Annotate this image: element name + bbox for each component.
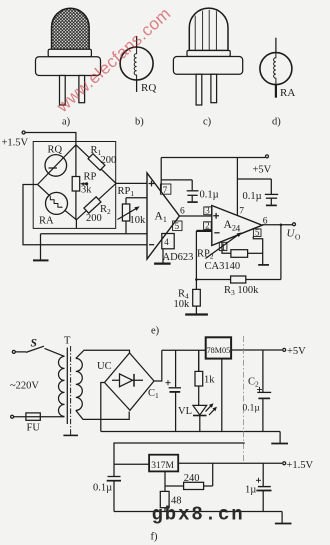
- bridge enclosure box: [33, 142, 116, 229]
- svg-text:f): f): [151, 532, 158, 543]
- svg-text:10k: 10k: [130, 215, 147, 226]
- svg-text:FU: FU: [27, 423, 41, 434]
- LED package c) dome: [189, 8, 228, 50]
- node AC terminal top: [12, 350, 15, 353]
- node AC terminal bottom: [11, 415, 14, 418]
- rectifier UC diamond: [105, 353, 155, 410]
- svg-text:+1.5V: +1.5V: [2, 138, 29, 149]
- photoresistor symbol b) element squiggle: [134, 48, 136, 79]
- resistor R3 100k: [196, 279, 281, 281]
- svg-text:e): e): [151, 326, 160, 337]
- ground below R4: [185, 313, 208, 315]
- pin box 5 of A2: [253, 229, 261, 237]
- wire A2 pin5 to ground: [253, 237, 262, 265]
- wire +5V out rail: [231, 349, 282, 351]
- photoresistor RA: [46, 192, 68, 214]
- op-amp A1 AD623: [147, 173, 179, 259]
- svg-text:RP2: RP2: [197, 249, 214, 261]
- svg-text:4: 4: [164, 237, 169, 247]
- node +1.5V terminal: [22, 131, 25, 134]
- wire A2 pin2 input (thick): [196, 230, 211, 232]
- svg-text:a): a): [62, 117, 71, 128]
- resistor R1 200: [88, 154, 105, 171]
- wire bridge diamond: [38, 145, 116, 220]
- ground at core: [63, 434, 78, 436]
- wire bridge plus riser: [154, 350, 162, 381]
- wire secondary bottom to bridge: [76, 410, 129, 419]
- wire +rail to 78M05: [162, 349, 206, 351]
- svg-text:c): c): [203, 117, 212, 128]
- package c) flange: [173, 57, 242, 75]
- capacitor 0.1u at 317M: [108, 476, 121, 478]
- svg-text:S: S: [31, 338, 37, 350]
- svg-text:RA: RA: [280, 87, 295, 99]
- svg-text:7: 7: [163, 185, 168, 195]
- capacitor C2: [262, 350, 264, 392]
- transformer T secondary winding: [76, 358, 83, 410]
- plus sign A2: [213, 213, 219, 219]
- resistor R4 10k: [193, 289, 201, 306]
- svg-text:0.1µ: 0.1µ: [93, 483, 112, 494]
- wire +1.5V to bridge top: [25, 133, 76, 145]
- svg-text:240: 240: [184, 473, 200, 484]
- wire bridge minus to ground rail: [101, 383, 105, 432]
- wire 0.1u branch A2: [237, 179, 271, 194]
- svg-text:1k: 1k: [204, 375, 215, 386]
- svg-text:1µ: 1µ: [245, 485, 256, 496]
- wire A1 pin4 to ground: [162, 234, 174, 249]
- pin box 1 of A2: [219, 242, 227, 250]
- wire A1 output to A2 input: [179, 215, 211, 217]
- transformer core: [66, 348, 68, 425]
- svg-text:C2: C2: [248, 377, 259, 389]
- ground at bottom rail: [281, 512, 283, 523]
- pin box 5 of A1: [173, 221, 182, 231]
- svg-text:5: 5: [255, 228, 260, 238]
- resistor R2 200: [84, 197, 101, 213]
- wire diamond bottom stub: [75, 220, 77, 229]
- diode inside UC: [112, 379, 143, 381]
- photoresistor symbol d) circle: [260, 53, 292, 85]
- svg-text:d): d): [272, 117, 281, 128]
- svg-text:317M: 317M: [151, 461, 174, 471]
- svg-text:0.1µ: 0.1µ: [243, 404, 261, 414]
- svg-text:RP: RP: [84, 172, 97, 183]
- wire ground rail upper f: [101, 431, 280, 433]
- svg-text:RQ: RQ: [141, 82, 156, 94]
- svg-text:7: 7: [239, 206, 244, 216]
- capacitor 0.1u at A2: [265, 193, 278, 195]
- svg-text:VL: VL: [178, 406, 192, 417]
- resistor 1k: [198, 350, 200, 371]
- package a) leg 2: [79, 76, 85, 103]
- node U0 terminal: [293, 223, 296, 226]
- svg-text:+5V: +5V: [253, 165, 272, 176]
- wire secondary top to bridge: [76, 350, 130, 358]
- svg-text:3: 3: [205, 206, 210, 216]
- wire +5V rail: [161, 157, 265, 159]
- wire 317M adj pin: [164, 471, 166, 491]
- wire 317M input rail: [114, 443, 245, 476]
- minus sign A1: [149, 244, 154, 246]
- package c) collar: [187, 51, 230, 57]
- wire 317M input branch: [114, 463, 149, 465]
- photoresistor package a) dome: [52, 8, 90, 49]
- package a) leg 1: [60, 76, 66, 106]
- svg-text:6: 6: [263, 216, 268, 226]
- capacitor 0.1u at A1: [187, 190, 199, 192]
- ground at rail end: [279, 432, 281, 443]
- photoresistor symbol b) circle: [120, 47, 153, 80]
- package c) leg 2: [211, 74, 217, 102]
- svg-text:3k: 3k: [81, 185, 92, 196]
- svg-text:5: 5: [175, 221, 180, 231]
- svg-text:0.1µ: 0.1µ: [243, 191, 262, 202]
- pin box 3 of A2: [204, 207, 212, 215]
- wire A1 pin7 riser: [160, 158, 162, 193]
- wire 317M output: [178, 462, 282, 464]
- package c) dome facet lines: [195, 10, 216, 51]
- package c) leg 1: [196, 74, 202, 105]
- node +5V terminal: [266, 155, 269, 158]
- transformer T primary winding: [59, 356, 65, 416]
- photoresistor symbol d) element squiggle: [274, 53, 276, 84]
- switch S: [15, 346, 64, 356]
- ground near bridge: [40, 234, 42, 260]
- plus sign A1: [149, 181, 155, 187]
- wire bottom AC: [14, 416, 65, 418]
- svg-text:0.1µ: 0.1µ: [200, 190, 219, 201]
- svg-text:200: 200: [86, 213, 102, 224]
- wire 0.1u branch A1: [161, 180, 192, 190]
- svg-text:RP1: RP1: [118, 186, 135, 198]
- svg-text:CA3140: CA3140: [205, 261, 241, 272]
- svg-text:O: O: [295, 233, 301, 242]
- package a) flange: [36, 57, 101, 76]
- ground below pin5: [258, 264, 269, 266]
- potentiometer RP1 10k: [126, 198, 147, 234]
- svg-text:b): b): [135, 117, 144, 128]
- photoresistor symbol d) lead: [275, 38, 277, 53]
- node +1.5V terminal f: [283, 462, 286, 465]
- wire feedback from output: [280, 225, 282, 280]
- regulator 78M05: [206, 337, 231, 358]
- wire RG lower rail: [41, 233, 148, 235]
- fold line artifact: [242, 336, 244, 463]
- svg-text:6: 6: [180, 207, 185, 217]
- svg-text:10k: 10k: [174, 299, 191, 310]
- wire bottom rail 317M: [114, 511, 282, 513]
- wire bridge right corner to A1 plus input: [116, 182, 147, 184]
- fuse FU: [26, 413, 40, 420]
- op-amp A2 CA3140: [212, 206, 262, 246]
- svg-text:4: 4: [236, 225, 241, 235]
- capacitor C1: [175, 350, 177, 387]
- wire A2 pin1: [222, 241, 231, 253]
- package a) collar: [48, 49, 91, 56]
- svg-text:AD623: AD623: [163, 252, 194, 263]
- pin box 7 of A1: [160, 184, 171, 194]
- svg-text:RQ: RQ: [48, 145, 63, 156]
- svg-text:200: 200: [101, 155, 117, 166]
- svg-text:C1: C1: [148, 388, 159, 400]
- wire bridge left corner to A1 minus input: [23, 185, 147, 245]
- svg-text:RA: RA: [39, 216, 54, 227]
- pin box 2 of A2: [204, 222, 212, 230]
- svg-text:~220V: ~220V: [10, 381, 39, 392]
- svg-text:UC: UC: [97, 361, 112, 372]
- ground below A1: [154, 263, 171, 265]
- svg-text:+5V: +5V: [287, 346, 306, 357]
- svg-text:gbx8.cn: gbx8.cn: [152, 504, 245, 526]
- wire feedback vertical: [195, 231, 197, 290]
- svg-text:+1.5V: +1.5V: [287, 460, 314, 471]
- photoresistor RQ: [45, 155, 67, 177]
- svg-text:1: 1: [221, 242, 226, 252]
- node +5V terminal f: [283, 348, 286, 351]
- svg-text:2: 2: [205, 221, 210, 231]
- wire A2 pin7 riser: [236, 158, 238, 216]
- svg-text:78M05: 78M05: [207, 345, 231, 355]
- regulator 317M: [149, 455, 178, 472]
- potentiometer RP 3k: [75, 145, 77, 220]
- minus sign A2: [214, 232, 219, 234]
- wire A2 output to U0: [262, 224, 292, 226]
- resistor 48: [160, 491, 169, 507]
- LED VL: [193, 405, 207, 415]
- photoresistor symbol b) lead: [136, 36, 138, 48]
- resistor 240: [165, 463, 213, 486]
- capacitor 1u: [262, 463, 264, 486]
- svg-text:R3 100k: R3 100k: [224, 285, 259, 297]
- svg-text:T: T: [64, 336, 71, 347]
- wire 78M05 gnd pin: [221, 359, 223, 432]
- potentiometer RP2: [231, 250, 248, 258]
